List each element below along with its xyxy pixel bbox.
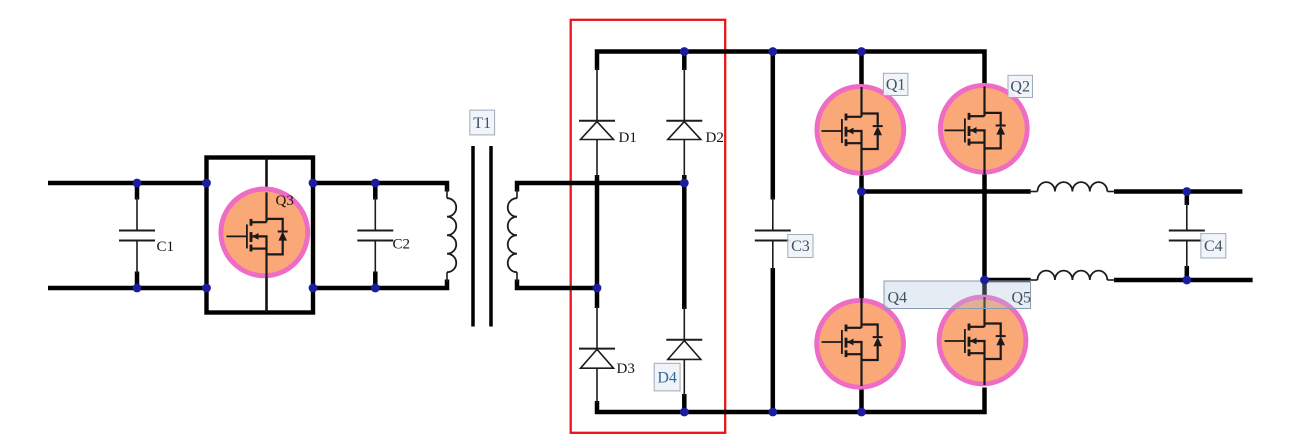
wire lower output rail left xyxy=(985,278,1031,283)
transformer T1 core xyxy=(473,146,491,327)
wire secondary bottom rail xyxy=(517,280,597,289)
transistor Q3 xyxy=(221,189,308,280)
transistor Q1 xyxy=(817,86,904,175)
capacitor C3 xyxy=(755,231,791,241)
red highlight rectangle around rectifier xyxy=(571,20,726,433)
wire upper output rail right xyxy=(1114,189,1242,194)
capacitor C1 xyxy=(119,231,155,241)
transistor Q2 xyxy=(940,85,1027,174)
svg-text:C2: C2 xyxy=(393,237,411,253)
wire Q1-Q4 mid column xyxy=(859,175,864,300)
label box D4 xyxy=(654,363,680,391)
wire C4 leads xyxy=(1186,203,1188,230)
svg-text:Q1: Q1 xyxy=(886,77,906,94)
node secondary bottom xyxy=(593,284,602,293)
junction nodes xyxy=(133,47,1192,416)
wire bottom bus xyxy=(597,388,985,413)
node box right top xyxy=(309,179,318,188)
diode D1 xyxy=(579,121,615,140)
diode D2 xyxy=(666,121,702,140)
wire C3 column lower xyxy=(771,268,776,412)
svg-text:Q4: Q4 xyxy=(888,289,908,306)
node top bus C3 xyxy=(768,47,777,56)
svg-text:D4: D4 xyxy=(657,370,677,387)
label box Q2 xyxy=(1008,75,1033,97)
node phase B xyxy=(980,276,989,285)
wire stub C2 top xyxy=(373,183,378,200)
label box Q4 Q5 xyxy=(884,281,1031,309)
wire top bus xyxy=(597,52,985,86)
wire D2D4 mid column xyxy=(682,175,687,309)
wire secondary top rail xyxy=(517,183,684,192)
wire C3 leads xyxy=(772,197,774,230)
svg-text:D2: D2 xyxy=(706,130,724,146)
svg-text:Q2: Q2 xyxy=(1010,79,1030,96)
svg-text:C4: C4 xyxy=(1204,238,1223,255)
wire input bottom rail right + corner to winding xyxy=(313,280,447,289)
node C1 top xyxy=(133,179,142,188)
node bottom bus D4 xyxy=(680,408,689,417)
node top bus D2 xyxy=(680,47,689,56)
wire coil leads bottom xyxy=(1029,279,1038,281)
Q3 switch box xyxy=(207,158,314,313)
node secondary top xyxy=(680,179,689,188)
transformer secondary winding xyxy=(508,198,517,272)
wire input top rail left xyxy=(48,181,207,186)
node box left bottom xyxy=(202,284,211,293)
transistor Q5 xyxy=(939,297,1026,385)
label box C4 xyxy=(1201,234,1226,258)
svg-text:Q3: Q3 xyxy=(276,193,294,209)
diode D3 xyxy=(579,349,615,369)
wire stub C1 bottom xyxy=(135,272,140,289)
capacitor C4 xyxy=(1169,231,1205,241)
wire stub C2 bottom xyxy=(373,272,378,289)
node bottom bus C3 xyxy=(768,408,777,417)
wire stub D2 top xyxy=(682,52,687,71)
node C2 top xyxy=(371,179,380,188)
wire D1D3 mid column xyxy=(595,175,600,308)
wire coil leads top xyxy=(1029,191,1038,193)
wire C3 column upper xyxy=(771,52,776,200)
inductor L2 xyxy=(1038,271,1108,280)
transistor Q4 xyxy=(817,298,904,387)
capacitor C2 xyxy=(357,231,393,241)
svg-text:Q5: Q5 xyxy=(1012,289,1032,306)
node C4 bottom xyxy=(1182,276,1191,285)
svg-text:C3: C3 xyxy=(791,238,810,255)
label box C3 xyxy=(788,235,813,258)
transformer primary winding xyxy=(447,198,456,272)
wire D4 leads xyxy=(683,307,685,340)
diode D4 xyxy=(666,340,702,360)
wire winding leads right xyxy=(516,189,518,198)
wire stub C4 top xyxy=(1185,192,1190,206)
wire D3 leads xyxy=(596,306,598,349)
wire Q3 drain lead to box top xyxy=(265,158,268,196)
wire stub D4 bottom xyxy=(682,394,687,412)
node box left top xyxy=(202,179,211,188)
wire input bottom rail left xyxy=(48,286,207,291)
svg-text:C1: C1 xyxy=(157,239,175,255)
wire winding leads left xyxy=(446,189,448,198)
node box right bottom xyxy=(309,284,318,293)
wire C1 leads xyxy=(136,197,138,230)
wire lower output rail right xyxy=(1114,278,1253,283)
node bottom bus Q4 xyxy=(857,408,866,417)
wire Q4 source stub xyxy=(859,388,864,412)
wire D2 leads xyxy=(683,68,685,121)
wire C2 leads xyxy=(374,197,376,230)
node C4 top xyxy=(1182,187,1191,196)
wire D1 leads xyxy=(596,68,598,121)
node phase A xyxy=(857,187,866,196)
svg-text:T1: T1 xyxy=(473,115,491,132)
inductor L1 xyxy=(1038,182,1108,191)
label box Q1 xyxy=(883,73,908,95)
node top bus Q1 xyxy=(857,47,866,56)
svg-text:D3: D3 xyxy=(617,361,635,377)
wire upper output rail left xyxy=(862,189,1031,194)
wire stub C4 bottom xyxy=(1185,266,1190,280)
wire Q3 source lead to box bottom xyxy=(265,274,268,313)
wire Q1 drain stub xyxy=(859,52,864,87)
wire input top rail right + corner to winding xyxy=(313,183,447,192)
node C1 bottom xyxy=(133,284,142,293)
svg-text:D1: D1 xyxy=(619,130,637,146)
wire Q2-Q5 mid column xyxy=(982,175,987,299)
node C2 bottom xyxy=(371,284,380,293)
label box T1 xyxy=(470,110,495,135)
wire stub C1 top xyxy=(135,183,140,200)
